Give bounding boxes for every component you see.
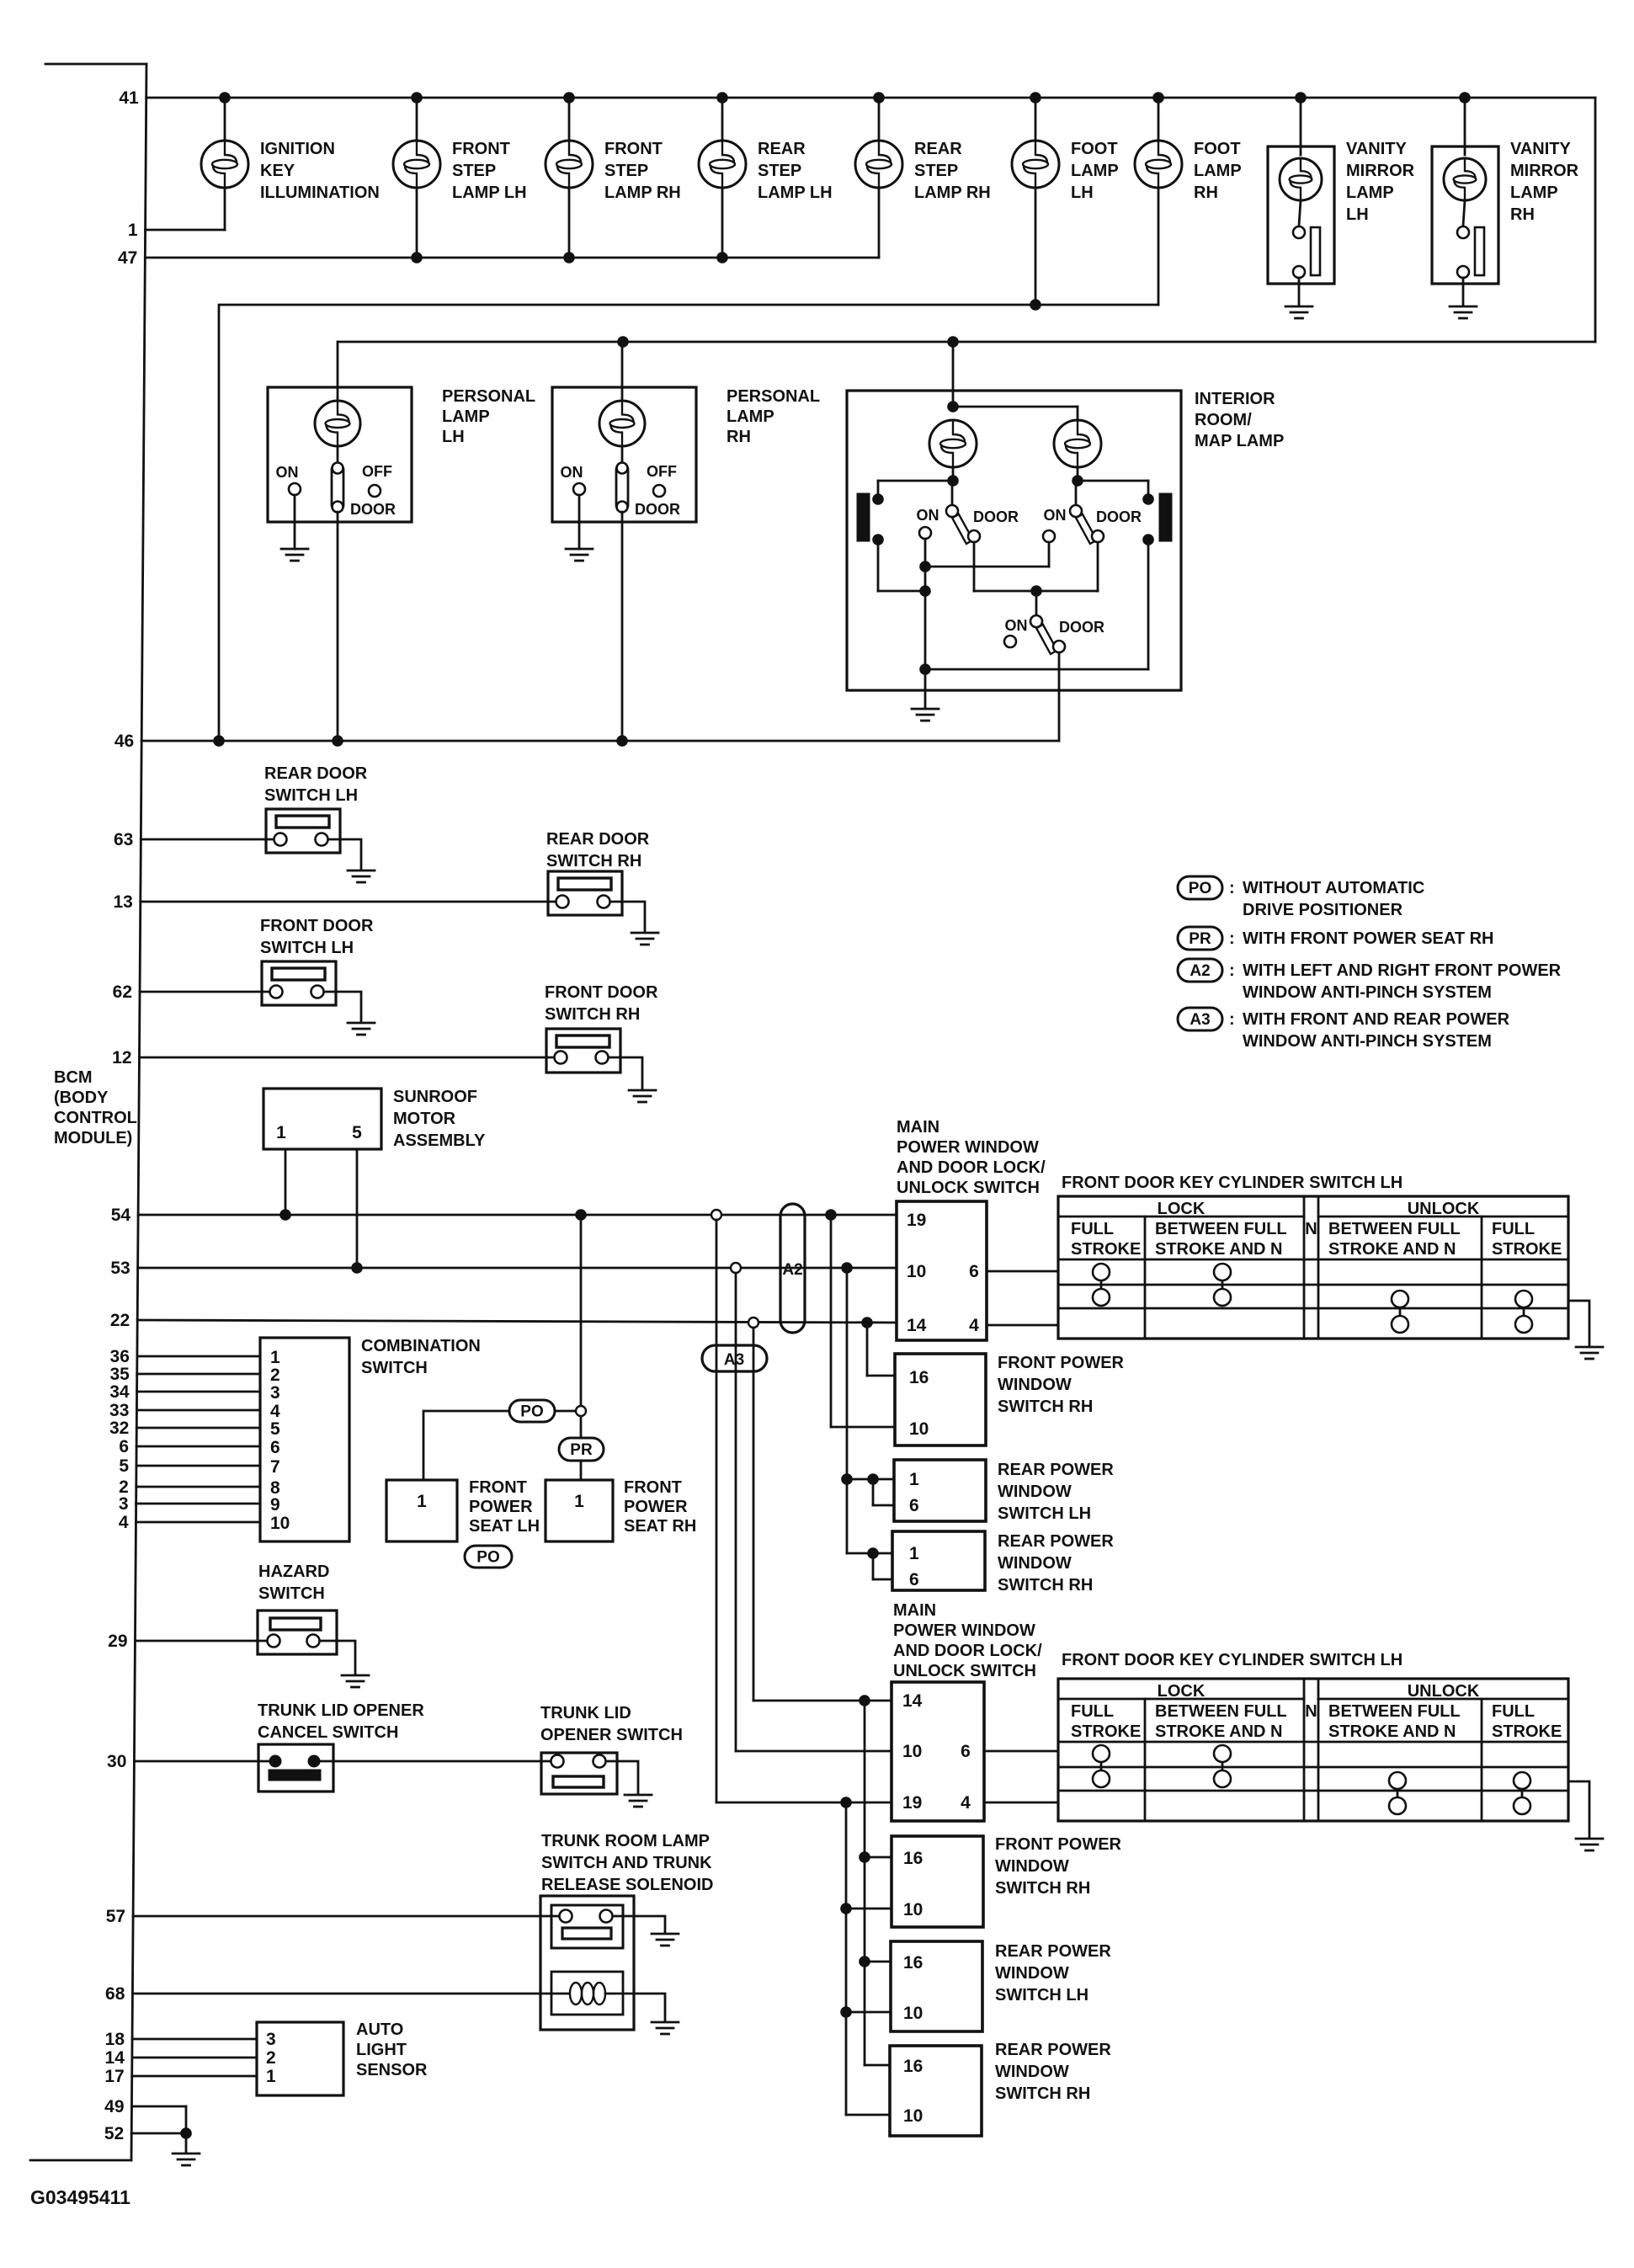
svg-text:47: 47 [118, 248, 137, 268]
svg-text:AND DOOR LOCK/: AND DOOR LOCK/ [893, 1642, 1042, 1660]
svg-text:BETWEEN FULL: BETWEEN FULL [1328, 1702, 1461, 1721]
svg-text:41: 41 [119, 88, 139, 108]
legend: A3 option [1178, 1008, 1510, 1051]
svg-text:12: 12 [112, 1048, 131, 1067]
svg-text:LH: LH [442, 428, 465, 446]
svg-text:WINDOW: WINDOW [998, 1554, 1072, 1573]
svg-text:SWITCH LH: SWITCH LH [995, 1986, 1088, 2004]
lamp: foot lamp RH [1135, 98, 1242, 305]
svg-text:3: 3 [270, 1383, 280, 1403]
svg-text:A2: A2 [782, 1261, 802, 1279]
svg-text:STEP: STEP [452, 162, 496, 180]
wire: anti-pinch branch C (rail 22) down to lower switch pin 14 [753, 1328, 892, 1706]
svg-text:OFF: OFF [362, 463, 392, 480]
svg-text:1: 1 [276, 1123, 286, 1142]
svg-text:REAR POWER: REAR POWER [998, 1532, 1114, 1551]
svg-text:SWITCH RH: SWITCH RH [998, 1398, 1093, 1416]
svg-text:RELEASE SOLENOID: RELEASE SOLENOID [541, 1876, 713, 1894]
svg-text:ON: ON [1005, 617, 1028, 634]
wire: pin 62 to front door switch LH [140, 991, 276, 993]
svg-text:WITH FRONT POWER SEAT RH: WITH FRONT POWER SEAT RH [1243, 929, 1494, 948]
lamp: front step lamp RH [546, 98, 681, 258]
wire: pin 13 to rear door switch RH [141, 901, 562, 903]
svg-text:N: N [1305, 1702, 1317, 1721]
wire: pins 18/14/17 to auto light sensor [132, 2039, 257, 2076]
ground: BCM pins 49/52 [173, 2154, 200, 2165]
svg-text:WINDOW: WINDOW [995, 2063, 1069, 2081]
component: front door switch RH [545, 983, 658, 1089]
svg-text:LAMP LH: LAMP LH [452, 184, 527, 202]
svg-text:49: 49 [104, 2097, 124, 2116]
svg-text:FRONT POWER: FRONT POWER [995, 1835, 1122, 1854]
svg-text:BETWEEN FULL: BETWEEN FULL [1155, 1702, 1287, 1721]
svg-text:TRUNK ROOM LAMP: TRUNK ROOM LAMP [541, 1832, 710, 1850]
wire: pin 12 to front door switch RH [140, 1057, 562, 1059]
component: front power window switch RH (lower) [892, 1835, 1122, 1927]
ground: interior room/map lamp [912, 709, 939, 721]
svg-text:6: 6 [119, 1437, 129, 1456]
svg-text:SUNROOF: SUNROOF [393, 1088, 477, 1106]
svg-text:FRONT DOOR: FRONT DOOR [545, 983, 658, 1002]
lamp assembly: vanity mirror lamp RH [1432, 98, 1579, 305]
svg-text:MAP LAMP: MAP LAMP [1195, 432, 1284, 450]
wire: pin 68 to trunk release solenoid [132, 1993, 569, 1995]
svg-text:VANITY: VANITY [1346, 140, 1408, 158]
ground: vanity mirror lamp LH [1285, 306, 1312, 318]
svg-text:2: 2 [270, 1366, 280, 1385]
svg-text:DOOR: DOOR [973, 508, 1019, 525]
svg-text:(BODY: (BODY [54, 1089, 109, 1107]
svg-text:STROKE AND N: STROKE AND N [1328, 1240, 1456, 1259]
svg-text:FRONT DOOR KEY CYLINDER SWITCH: FRONT DOOR KEY CYLINDER SWITCH LH [1062, 1174, 1402, 1192]
svg-text:7: 7 [270, 1457, 280, 1477]
svg-text:FRONT DOOR KEY CYLINDER SWITCH: FRONT DOOR KEY CYLINDER SWITCH LH [1062, 1651, 1402, 1669]
svg-text:6: 6 [969, 1262, 979, 1281]
svg-text:16: 16 [903, 1953, 923, 1973]
svg-text:LAMP LH: LAMP LH [758, 184, 833, 202]
lamp: rear step lamp LH [699, 98, 833, 258]
svg-text:3: 3 [266, 2030, 276, 2049]
svg-text:UNLOCK SWITCH: UNLOCK SWITCH [893, 1662, 1036, 1680]
svg-text:SWITCH: SWITCH [361, 1359, 428, 1377]
svg-text:REAR DOOR: REAR DOOR [546, 830, 650, 849]
svg-text:13: 13 [113, 892, 132, 912]
svg-text:MODULE): MODULE) [54, 1129, 132, 1147]
wire: pin 22 rail [137, 1317, 897, 1328]
svg-text:4: 4 [119, 1513, 129, 1532]
svg-text:19: 19 [907, 1211, 926, 1230]
svg-text:WINDOW: WINDOW [998, 1376, 1072, 1394]
component: hazard switch [258, 1563, 355, 1674]
svg-text:REAR POWER: REAR POWER [995, 1942, 1111, 1961]
svg-text:WITH FRONT AND REAR POWER: WITH FRONT AND REAR POWER [1243, 1010, 1510, 1029]
svg-text:6: 6 [961, 1742, 971, 1761]
wire: pin 1 to ignition lamp [146, 189, 225, 230]
component: main power window and door lock/unlock switch (lower) [892, 1601, 1042, 1821]
svg-text:1: 1 [128, 221, 138, 240]
svg-text:1: 1 [270, 1348, 280, 1367]
svg-text:FRONT POWER: FRONT POWER [998, 1354, 1125, 1372]
connector option PO capsule (branch) [509, 1400, 576, 1422]
svg-text:BETWEEN FULL: BETWEEN FULL [1328, 1220, 1461, 1238]
svg-text:33: 33 [109, 1401, 129, 1420]
wire: pin 29 to hazard switch [136, 1640, 274, 1642]
svg-text:10: 10 [902, 1742, 922, 1761]
lamp assembly: personal lamp LH [268, 342, 535, 741]
svg-text:5: 5 [119, 1456, 129, 1476]
svg-text:5: 5 [270, 1419, 280, 1439]
svg-text:LH: LH [1071, 184, 1094, 202]
wire: pin 30 to trunk lid opener cancel switch [134, 1760, 269, 1763]
wire: pins 49 and 52 to ground [131, 2106, 192, 2152]
svg-text:FULL: FULL [1071, 1220, 1114, 1238]
figure number G03495411 [30, 2186, 130, 2208]
connector option PR capsule [559, 1438, 604, 1461]
svg-text:WINDOW ANTI-PINCH SYSTEM: WINDOW ANTI-PINCH SYSTEM [1243, 983, 1492, 1002]
svg-text:MIRROR: MIRROR [1346, 162, 1415, 180]
wire: anti-pinch branch A (rail 54) down to lower switch pin 19 [716, 1220, 892, 1808]
svg-text:DOOR: DOOR [1059, 619, 1104, 636]
svg-text::: : [1229, 961, 1235, 980]
wire: rail 54 branch to power seats [580, 1215, 583, 1438]
svg-text:A3: A3 [724, 1351, 744, 1369]
svg-text:SWITCH AND TRUNK: SWITCH AND TRUNK [541, 1854, 712, 1872]
svg-text:LAMP: LAMP [1510, 184, 1558, 202]
wire: upper key cylinder table to ground [1568, 1301, 1589, 1345]
svg-text:4: 4 [961, 1793, 971, 1813]
svg-text:32: 32 [109, 1419, 129, 1438]
svg-text:UNLOCK SWITCH: UNLOCK SWITCH [897, 1179, 1040, 1197]
wire: combination switch pin wires from BCM [136, 1356, 261, 1522]
svg-text:1: 1 [909, 1470, 919, 1489]
wire: sunroof pin 1 to rail 54 [285, 1149, 287, 1215]
ground: trunk room lamp switch [652, 1934, 679, 1946]
svg-text:17: 17 [104, 2067, 124, 2086]
svg-text:FRONT: FRONT [604, 140, 663, 158]
wire: anti-pinch branch B (rail 53) down to lower switch pin 10 [736, 1273, 892, 1751]
svg-text:SWITCH LH: SWITCH LH [264, 786, 358, 805]
svg-text:FULL: FULL [1492, 1220, 1535, 1238]
svg-text:54: 54 [111, 1206, 131, 1225]
svg-text:63: 63 [114, 830, 133, 849]
svg-text:STROKE AND N: STROKE AND N [1155, 1240, 1282, 1259]
wire: pin 57 to trunk room lamp switch [133, 1915, 566, 1918]
svg-text:ROOM/: ROOM/ [1195, 411, 1252, 429]
svg-text:ON: ON [1044, 507, 1067, 524]
svg-text:68: 68 [105, 1984, 125, 2004]
svg-text:SWITCH LH: SWITCH LH [260, 939, 354, 957]
svg-text:35: 35 [109, 1365, 130, 1384]
component: trunk room lamp switch and trunk release solenoid [540, 1832, 713, 2030]
svg-text:POWER: POWER [469, 1498, 533, 1516]
svg-text:AUTO: AUTO [356, 2020, 403, 2039]
svg-text:DRIVE POSITIONER: DRIVE POSITIONER [1243, 901, 1403, 919]
svg-text:1: 1 [417, 1492, 427, 1511]
component: rear door switch LH [264, 764, 368, 869]
legend mark: PO under front power seat LH [465, 1546, 512, 1568]
svg-text:FOOT: FOOT [1071, 140, 1118, 158]
svg-text:PERSONAL: PERSONAL [442, 387, 535, 406]
wire: pin 47 rail [145, 252, 879, 264]
svg-text:14: 14 [105, 2048, 125, 2068]
svg-text:UNLOCK: UNLOCK [1408, 1200, 1480, 1218]
BCM label [54, 1068, 137, 1147]
svg-text:9: 9 [270, 1495, 280, 1515]
svg-text:FULL: FULL [1492, 1702, 1535, 1721]
wire: pin 46 rail [141, 735, 1059, 747]
svg-text:22: 22 [110, 1311, 130, 1330]
wire: lower 10-pin feed bus [840, 1802, 892, 2115]
svg-text:ON: ON [276, 464, 299, 481]
component: combination switch [260, 1337, 481, 1541]
svg-text:STROKE: STROKE [1071, 1722, 1141, 1741]
wire: lower key cylinder table to ground [1568, 1781, 1589, 1837]
svg-text:5: 5 [352, 1123, 362, 1142]
svg-text:6: 6 [270, 1438, 280, 1457]
svg-text:14: 14 [902, 1691, 923, 1711]
svg-text:BCM: BCM [54, 1068, 93, 1087]
svg-text:INTERIOR: INTERIOR [1195, 390, 1275, 408]
component: trunk lid opener cancel switch [258, 1701, 557, 1792]
svg-text:WITHOUT AUTOMATIC: WITHOUT AUTOMATIC [1243, 879, 1424, 897]
svg-text:STROKE: STROKE [1492, 1240, 1562, 1259]
svg-text:STROKE: STROKE [1492, 1722, 1562, 1741]
svg-text:SWITCH RH: SWITCH RH [995, 1879, 1090, 1898]
svg-text:SENSOR: SENSOR [356, 2061, 428, 2079]
svg-text:52: 52 [104, 2124, 124, 2143]
svg-text:STROKE AND N: STROKE AND N [1155, 1722, 1282, 1741]
svg-text:LAMP: LAMP [1346, 184, 1394, 202]
svg-text:KEY: KEY [260, 162, 295, 180]
svg-text:10: 10 [903, 2004, 923, 2023]
svg-text:46: 46 [114, 732, 134, 751]
svg-text:62: 62 [113, 982, 132, 1002]
svg-text:LAMP RH: LAMP RH [604, 184, 681, 202]
svg-text:1: 1 [909, 1544, 919, 1563]
svg-text:PO: PO [476, 1549, 499, 1567]
component: front power seat LH [386, 1478, 540, 1541]
legend: PR option [1178, 927, 1494, 950]
svg-text:SEAT LH: SEAT LH [469, 1517, 540, 1536]
svg-text:CONTROL: CONTROL [54, 1109, 137, 1127]
lamp: foot lamp LH [1012, 98, 1119, 305]
component: rear power window switch RH (upper) [892, 1531, 1114, 1595]
svg-text:ILLUMINATION: ILLUMINATION [260, 184, 380, 202]
svg-text:2: 2 [266, 2048, 276, 2068]
svg-text:SWITCH RH: SWITCH RH [995, 2084, 1090, 2103]
lamp assembly: vanity mirror lamp LH [1268, 98, 1415, 305]
wire: PR capsule to front power seat RH [580, 1461, 583, 1480]
svg-text:3: 3 [119, 1494, 129, 1514]
ground: lower key cylinder table [1576, 1839, 1603, 1850]
component: rear power window switch RH (lower) [890, 2041, 1111, 2136]
svg-text:CANCEL SWITCH: CANCEL SWITCH [258, 1723, 398, 1742]
wire: foot lamp feed rail down to pin 46 rail [219, 299, 1158, 741]
svg-text:16: 16 [909, 1368, 929, 1387]
svg-text:FRONT: FRONT [452, 140, 510, 158]
ground: personal lamp LH ON contact [281, 549, 308, 561]
svg-text:FRONT: FRONT [469, 1478, 527, 1497]
svg-text:LAMP: LAMP [727, 407, 774, 426]
svg-text:UNLOCK: UNLOCK [1408, 1682, 1480, 1701]
wire: rail 53 branch to rear power window switches pin 1/6 [841, 1268, 894, 1579]
connector option A3 capsule [702, 1345, 767, 1371]
svg-text:SEAT RH: SEAT RH [624, 1517, 696, 1536]
svg-text:BETWEEN FULL: BETWEEN FULL [1155, 1220, 1287, 1238]
svg-text:10: 10 [270, 1514, 290, 1533]
svg-text:6: 6 [909, 1570, 919, 1589]
svg-text:FOOT: FOOT [1194, 140, 1241, 158]
svg-text:MAIN: MAIN [897, 1118, 939, 1137]
svg-text:PR: PR [1189, 930, 1211, 948]
svg-text::: : [1229, 879, 1235, 897]
component: rear power window switch LH (upper) [894, 1460, 1114, 1523]
svg-text:DOOR: DOOR [1096, 508, 1142, 525]
ground: trunk release solenoid [652, 2022, 679, 2034]
ground: rear door switch RH [631, 933, 658, 945]
svg-text:SWITCH RH: SWITCH RH [546, 852, 641, 870]
ground: trunk lid opener switch [625, 1795, 652, 1807]
ground: personal lamp RH ON contact [566, 549, 593, 561]
svg-text:4: 4 [270, 1402, 280, 1421]
svg-text:REAR: REAR [758, 140, 806, 158]
component: front power window switch RH (upper) [895, 1354, 1125, 1445]
wire: rail 54 branch to front power window switch RH pin 10 [831, 1215, 895, 1427]
svg-text:34: 34 [109, 1382, 130, 1402]
component: front power seat RH [546, 1478, 696, 1541]
lamp: ignition key illumination lamp [201, 98, 380, 202]
svg-text:1: 1 [266, 2067, 276, 2086]
svg-text:TRUNK LID OPENER: TRUNK LID OPENER [258, 1701, 424, 1720]
svg-text:18: 18 [105, 2030, 125, 2049]
svg-text:16: 16 [903, 1849, 923, 1868]
component: front door key cylinder switch LH (lower table) [1058, 1651, 1568, 1821]
lamp: front step lamp LH [393, 98, 527, 258]
svg-text:OPENER SWITCH: OPENER SWITCH [540, 1726, 683, 1744]
svg-text:ASSEMBLY: ASSEMBLY [393, 1131, 486, 1150]
svg-text:STEP: STEP [604, 162, 648, 180]
svg-text:POWER WINDOW: POWER WINDOW [893, 1621, 1035, 1640]
wire: upper switch pin 4 to key cylinder table [987, 1324, 1058, 1327]
svg-text:MAIN: MAIN [893, 1601, 936, 1620]
svg-text:36: 36 [110, 1347, 130, 1366]
svg-text:30: 30 [107, 1752, 126, 1771]
component: main power window and door lock/unlock switch (upper) [897, 1118, 1046, 1340]
svg-text:AND DOOR LOCK/: AND DOOR LOCK/ [897, 1158, 1046, 1177]
wire: lower switch pin 6 to key cylinder table [984, 1750, 1058, 1753]
svg-text:29: 29 [108, 1632, 127, 1651]
svg-text:ON: ON [561, 464, 583, 481]
svg-text:TRUNK LID: TRUNK LID [540, 1704, 631, 1722]
svg-text:N: N [1305, 1220, 1317, 1238]
svg-text:REAR POWER: REAR POWER [995, 2041, 1111, 2059]
svg-text:HAZARD: HAZARD [258, 1563, 329, 1581]
svg-text:RH: RH [1510, 205, 1535, 224]
svg-text:G03495411: G03495411 [30, 2186, 130, 2208]
wire: lower 16-pin feed bus [859, 1701, 892, 2065]
component: rear power window switch LH (lower) [891, 1941, 1111, 2031]
svg-text:LAMP: LAMP [1194, 162, 1242, 180]
ground: upper key cylinder table [1576, 1347, 1603, 1359]
svg-text:LAMP RH: LAMP RH [914, 184, 991, 202]
svg-text:LOCK: LOCK [1158, 1200, 1206, 1218]
svg-text:SWITCH RH: SWITCH RH [545, 1005, 640, 1024]
svg-text:SWITCH LH: SWITCH LH [998, 1504, 1091, 1523]
svg-text:SWITCH RH: SWITCH RH [998, 1576, 1093, 1595]
svg-text::: : [1229, 929, 1235, 948]
ground: front door switch LH [348, 1023, 375, 1035]
svg-text:PO: PO [520, 1403, 543, 1421]
svg-text:LIGHT: LIGHT [356, 2041, 407, 2059]
svg-text:LAMP: LAMP [442, 407, 490, 426]
svg-text:SWITCH: SWITCH [258, 1584, 325, 1603]
wire: sunroof pin 5 to rail 53 [356, 1149, 359, 1268]
ground: front door switch RH [629, 1090, 656, 1102]
svg-text:1: 1 [574, 1492, 584, 1511]
svg-text:PERSONAL: PERSONAL [727, 387, 820, 406]
ground: rear door switch LH [348, 870, 375, 882]
svg-text:FRONT: FRONT [624, 1478, 682, 1497]
svg-text:IGNITION: IGNITION [260, 140, 335, 158]
svg-text:WINDOW: WINDOW [995, 1964, 1069, 1983]
ground: hazard switch [342, 1675, 369, 1687]
wire: pin 53 rail [138, 1262, 897, 1274]
svg-text:19: 19 [902, 1793, 922, 1813]
svg-text:14: 14 [907, 1316, 927, 1335]
svg-text:POWER WINDOW: POWER WINDOW [897, 1138, 1039, 1157]
svg-text:PR: PR [570, 1441, 593, 1459]
svg-text:FULL: FULL [1071, 1702, 1114, 1721]
svg-text:MOTOR: MOTOR [393, 1110, 456, 1128]
lamp assembly: interior room / map lamp [847, 342, 1284, 741]
connector option A2 capsule [780, 1204, 805, 1333]
svg-text:REAR DOOR: REAR DOOR [264, 764, 368, 783]
lamp: rear step lamp RH [855, 98, 991, 258]
svg-text:RH: RH [1194, 184, 1218, 202]
wire: personal/interior lamp feed rail (from pin 41 drop) [338, 336, 1595, 348]
component: front door switch LH [260, 917, 374, 1021]
component: rear door switch RH [546, 830, 650, 931]
svg-text:A2: A2 [1190, 962, 1210, 980]
svg-text:WINDOW: WINDOW [998, 1483, 1072, 1501]
svg-text:57: 57 [106, 1907, 125, 1926]
wire: lower switch pin 4 to key cylinder table [984, 1802, 1058, 1804]
component: auto light sensor [257, 2020, 428, 2095]
wire: pin 41 rail with right-side drop [146, 92, 1595, 342]
svg-text:RH: RH [727, 428, 751, 446]
wire: PO branch to front power seat LH [423, 1411, 509, 1480]
svg-text:10: 10 [909, 1419, 929, 1439]
component: trunk lid opener switch [540, 1704, 683, 1794]
svg-text:DOOR: DOOR [635, 501, 680, 518]
svg-text:LAMP: LAMP [1071, 162, 1119, 180]
svg-text:WINDOW: WINDOW [995, 1857, 1069, 1876]
ground: vanity mirror lamp RH [1450, 306, 1477, 318]
svg-text:MIRROR: MIRROR [1510, 162, 1579, 180]
svg-text:10: 10 [903, 1900, 923, 1919]
svg-text::: : [1229, 1010, 1235, 1029]
svg-text:STROKE: STROKE [1071, 1240, 1141, 1259]
svg-text:STROKE AND N: STROKE AND N [1328, 1722, 1456, 1741]
component: front door key cylinder switch LH (upper table) [1058, 1174, 1568, 1339]
svg-text:4: 4 [969, 1316, 979, 1335]
svg-text:16: 16 [903, 2057, 923, 2076]
BCM (Body Control Module) connector bus [30, 64, 146, 2160]
svg-text:DOOR: DOOR [350, 501, 396, 518]
component: sunroof motor assembly [263, 1088, 486, 1150]
svg-text:LH: LH [1346, 205, 1369, 224]
svg-text:ON: ON [917, 507, 939, 524]
